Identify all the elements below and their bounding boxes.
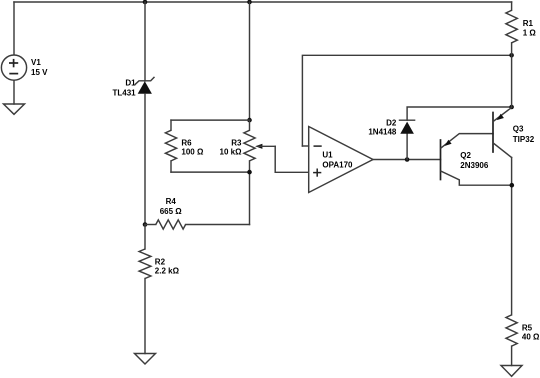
svg-text:TIP32: TIP32: [513, 135, 535, 144]
ground at V1: [4, 104, 25, 114]
wire D1 cathode branch: [144, 2, 146, 81]
resistor R2: [139, 249, 151, 279]
node Q3 emitter rail: [509, 105, 514, 110]
wire D1 anode down to node A: [144, 94, 146, 225]
diode D2 body: [400, 122, 414, 134]
wire R4 to divider corner: [186, 224, 250, 226]
node feedback tap: [509, 53, 514, 58]
svg-text:R2: R2: [155, 257, 166, 266]
R3 wiper arrow: [255, 144, 262, 149]
svg-text:Q3: Q3: [513, 125, 524, 134]
Q3 emitter arrow: [497, 114, 504, 120]
svg-text:10 kΩ: 10 kΩ: [220, 148, 243, 157]
svg-text:U1: U1: [322, 151, 333, 160]
svg-text:1N4148: 1N4148: [368, 128, 397, 137]
wire V1 positive lead: [13, 2, 15, 55]
svg-text:100 Ω: 100 Ω: [181, 148, 204, 157]
svg-text:R6: R6: [181, 139, 192, 148]
diode D1 cathode bar: [135, 77, 155, 85]
node output D2 junction: [405, 157, 410, 162]
wire Q3 collector: [494, 143, 512, 157]
svg-text:V1: V1: [31, 58, 41, 67]
node A junction R4 R2: [143, 222, 148, 227]
wire R3 bottom lead: [249, 161, 251, 172]
svg-text:40 Ω: 40 Ω: [522, 333, 540, 342]
wire R6 R3 bottom rail: [171, 171, 250, 173]
wire D2 cathode to emitter node: [407, 107, 512, 120]
potentiometer R3: [244, 130, 255, 161]
resistor R1: [506, 10, 517, 43]
wire collector rail down to R5: [511, 158, 513, 315]
wire V1 negative lead: [13, 80, 15, 104]
wire R6 top lead: [170, 120, 172, 130]
wire R3 top lead: [249, 120, 251, 130]
wire op-amp output to Q2 base: [373, 159, 441, 161]
svg-text:TL431: TL431: [112, 88, 136, 97]
svg-text:R4: R4: [166, 197, 177, 206]
wire R1 top lead: [511, 2, 513, 10]
node top rail to D1 branch: [143, 0, 148, 4]
wire Q2 emitter to Q3 base: [441, 134, 493, 148]
wire feedback to R1 bottom: [302, 55, 511, 146]
wire R1 bottom to emitter node: [511, 43, 513, 107]
transistor Q2 base bar: [440, 140, 442, 180]
svg-text:R5: R5: [522, 323, 533, 332]
wire inverting input stub: [302, 145, 308, 147]
node R6 R3 bottom: [247, 170, 252, 175]
svg-text:1 Ω: 1 Ω: [523, 29, 537, 38]
ground at R2: [135, 354, 156, 365]
resistor R5: [506, 315, 517, 346]
node top rail to R3 branch: [247, 0, 252, 4]
wire Q2 collector to collector node: [441, 171, 512, 185]
voltage source V1 body: [1, 55, 26, 80]
wire R2 to ground: [144, 279, 146, 354]
wire R5 to ground: [511, 346, 513, 365]
svg-text:2.2 kΩ: 2.2 kΩ: [155, 266, 180, 275]
wire node A to R2: [144, 225, 146, 250]
diode D1 body: [138, 81, 152, 94]
wire D2 anode branch: [406, 134, 408, 160]
wire R6 bottom lead: [170, 161, 172, 172]
wire R6 R3 top rail: [171, 119, 250, 121]
svg-text:665 Ω: 665 Ω: [160, 207, 183, 216]
wire node A to R4: [145, 224, 156, 226]
wire branch down to R6 R3 block: [249, 2, 251, 120]
node collector junction: [510, 183, 515, 188]
svg-text:OPA170: OPA170: [322, 160, 353, 169]
svg-text:15 V: 15 V: [31, 68, 48, 77]
svg-text:Q2: Q2: [460, 151, 471, 160]
wire up to divider bottom rail: [249, 172, 251, 224]
svg-text:D1: D1: [125, 79, 136, 88]
wire Q3 emitter: [494, 108, 512, 122]
svg-text:R1: R1: [523, 19, 534, 28]
transistor Q3 base bar: [492, 113, 494, 153]
resistor R4: [156, 220, 186, 229]
wire top supply rail: [14, 1, 512, 3]
wire wiper to op-amp noninverting input: [275, 146, 309, 172]
Q2 emitter arrow: [445, 140, 452, 146]
node R6 R3 top: [247, 118, 252, 123]
wire R3 wiper: [258, 145, 275, 147]
svg-text:R3: R3: [231, 139, 242, 148]
resistor R6: [165, 130, 176, 161]
op-amp U1 body: [309, 127, 373, 193]
ground at R5: [501, 366, 522, 377]
svg-text:D2: D2: [386, 119, 397, 128]
svg-text:2N3906: 2N3906: [460, 161, 489, 170]
diode D2 cathode bar: [400, 119, 415, 121]
